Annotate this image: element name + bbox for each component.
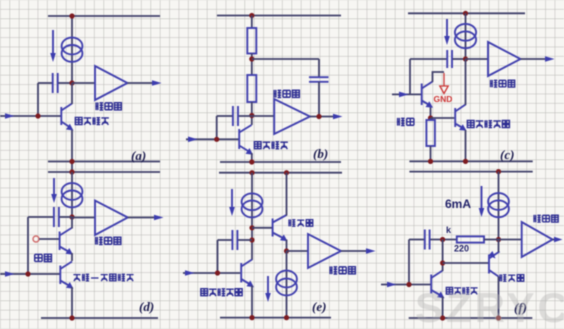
wire: top supply rail (f): [409, 171, 532, 173]
node: base-feed junction dot: [440, 260, 445, 265]
wire: top supply rail (a): [48, 15, 160, 17]
wire: corner to Miller cap: [218, 239, 232, 241]
node: input junction dot: [214, 137, 219, 142]
CIRCUIT A: [0, 13, 162, 172]
wire: Q2 emitter up to output node: [498, 240, 500, 253]
wire: collector node to amp input: [252, 115, 274, 117]
transistor Q2 base bar: [59, 266, 61, 285]
CIRCUIT C: [392, 11, 555, 164]
wire: input line: [381, 284, 431, 286]
arrow: output: [545, 56, 555, 62]
wire: Q1 emitter down to bottom rail: [251, 286, 253, 318]
wire: node down through current source I2 to bottom rail: [286, 251, 288, 318]
wire: down to feedback capacitor: [318, 59, 320, 77]
node: cap/current-source junction dot: [463, 56, 468, 61]
wire: input line: [0, 273, 60, 275]
capacitor C1 (Miller): [53, 207, 55, 227]
label: 电压放大器 (voltage amplifier): [201, 288, 242, 296]
label: 输出级 (output stage): [490, 80, 515, 87]
wire: capacitor to node: [453, 58, 466, 60]
CIRCUIT D: [0, 169, 164, 320]
transistor Q1 emitter with arrow: [239, 146, 249, 152]
transistor Q2 base bar (buffer): [272, 219, 274, 237]
resistor R1 (horizontal): [457, 236, 484, 242]
svg-text:SZRYC: SZRYC: [415, 284, 564, 329]
wire: R2 down to collector node: [251, 102, 253, 125]
svg-text:220: 220: [454, 244, 469, 254]
node: junction on top rail left: [249, 170, 254, 175]
CIRCUIT F: [381, 169, 563, 321]
node: junction bottom rail left: [249, 315, 254, 320]
transistor Q1 base bar (voltage amp): [430, 275, 432, 294]
wire: rail through current source to node: [71, 172, 73, 217]
node: input junction dot: [35, 113, 40, 118]
wire: Q1 emitter down to bottom rail: [442, 297, 444, 319]
wire: left vertical cap to input: [37, 83, 39, 116]
arrow: output: [152, 80, 162, 86]
CIRCUIT B: [186, 13, 343, 165]
arrow: input: [5, 113, 15, 119]
resistor R1: [247, 28, 256, 54]
wire: junction to Q2 base: [443, 262, 489, 264]
wire: feedback tap to the right: [252, 58, 319, 60]
label: 共射--共基放大 (common emitter - common base amp): [73, 274, 133, 281]
wire: amp output: [128, 82, 156, 84]
wire: bottom rail of (d): [41, 317, 158, 319]
node: amp input junction dot: [284, 248, 289, 253]
node A junction dot: [69, 80, 74, 85]
wire: node to amp input: [287, 250, 309, 252]
wire: node A horizontal to capacitor: [38, 82, 52, 84]
wire: rail through current source I1 down to collector join: [251, 173, 253, 260]
wire: vertical from rail through current source to node A: [71, 16, 73, 83]
node: Q2 emitter bottom junction dot: [463, 159, 468, 164]
wire: amp output: [128, 217, 156, 219]
transistor Q1 emitter with arrow: [60, 247, 69, 252]
label: 输出级 (output stage): [533, 215, 558, 222]
wire: node down to resistor: [430, 118, 432, 120]
svg-text:6mA: 6mA: [445, 197, 471, 211]
node: junction on top rail right: [284, 170, 289, 175]
label: 缓冲器 (buffer): [499, 274, 523, 281]
arrow: input: [387, 282, 397, 288]
transistor Q1 base bar (voltage amp): [240, 263, 242, 283]
label: 电压放大器 (voltage amplifier): [467, 120, 509, 128]
node: input junction dot: [406, 282, 411, 287]
node: cap junction dot: [249, 237, 254, 242]
wire: capacitor to node A: [59, 82, 73, 84]
wire: corner to capacitor: [409, 239, 424, 241]
wire: collector step to GND flag: [433, 72, 445, 82]
wire: bottom rail of (e): [220, 317, 331, 319]
transistor Q1 collector: [61, 104, 72, 111]
transistor Q1 collector: [422, 82, 433, 89]
wire: Q2 emitter down to bottom rail: [465, 130, 467, 161]
svg-text:(d): (d): [139, 299, 154, 314]
node: resistor bottom junction dot: [428, 159, 433, 164]
capacitor C1 (Miller): [232, 106, 234, 126]
wire: left vertical from cap line to input line: [409, 59, 411, 94]
op-amp U1 output stage triangle: [522, 222, 553, 257]
node: R1/R2 junction dot: [249, 56, 254, 61]
capacitor C1 (Miller): [231, 230, 233, 250]
wire: capacitor to output node: [318, 82, 320, 117]
node: output junction dot: [316, 114, 321, 119]
wire: left vertical cap line to input: [408, 240, 410, 285]
wire: bottom rail of (f): [409, 317, 533, 319]
current source I1 (two overlapping circles): [242, 193, 263, 210]
wire: cap line left corner to capacitor: [410, 58, 446, 60]
resistor R1: [426, 120, 435, 146]
wire: amp output: [553, 239, 556, 241]
wire: input line: [392, 93, 421, 95]
op-amp U1 output stage triangle: [274, 99, 310, 134]
transistor Q1 emitter with arrow: [422, 101, 429, 105]
wire: junction to buffer base: [252, 227, 272, 229]
transistor Q1 base bar: [60, 107, 62, 125]
wire: node to amp input: [72, 217, 95, 219]
wire: node A to amplifier input: [72, 82, 95, 84]
node: junction bottom rail left: [440, 315, 445, 320]
svg-text:(a): (a): [131, 148, 146, 163]
wire: top supply rail (b): [217, 15, 341, 17]
wire: collector up to node A: [71, 83, 73, 104]
current source I1 (two overlapping circles): [62, 38, 83, 55]
wire: resistor to output node: [484, 239, 499, 241]
svg-text:(b): (b): [313, 146, 328, 161]
arrow: output: [366, 248, 376, 254]
op-amp U1 output stage triangle: [308, 234, 341, 268]
node: cap node junction dot: [69, 214, 74, 219]
wire: Q2 collector up to top rail: [286, 173, 288, 216]
wire: left corner to Miller cap: [217, 115, 232, 117]
wire: amp output: [341, 250, 368, 252]
arrow: input: [5, 271, 15, 277]
transistor Q1 collector: [239, 125, 251, 133]
transistor Q1 emitter with arrow: [431, 290, 440, 295]
transistor Q2 base bar (buffer, PNP): [488, 255, 490, 274]
wire: bottom rail 1 of (a): [48, 161, 160, 163]
wire: R1 to R2: [251, 54, 253, 76]
wire: left vertical down to base line: [216, 116, 218, 139]
label: 偏置 (bias): [35, 254, 52, 261]
transistor Q2 collector: [273, 215, 287, 223]
node: junction bottom rail 1: [69, 159, 74, 164]
node: output node junction dot: [496, 237, 501, 242]
wire: Q2 emitter down to amp node: [286, 240, 288, 252]
wire: Q1 collector up to node: [71, 217, 73, 229]
wire: top supply rail (e): [219, 172, 342, 174]
node: collector node dot: [249, 113, 254, 118]
transistor Q2 collector: [489, 270, 499, 277]
wire: node to amp input: [466, 58, 489, 60]
op-amp U1 output stage triangle: [95, 201, 128, 236]
transistor Q1 collector: [431, 271, 442, 279]
capacitor C1 (Miller): [446, 50, 448, 68]
wire: bottom rail of (b): [220, 161, 341, 163]
transistor Q1 emitter with arrow: [241, 279, 249, 284]
op-amp U1 output stage triangle: [95, 66, 128, 100]
capacitor C1: [424, 230, 426, 250]
transistor Q1 collector: [60, 228, 72, 236]
current source I1 (two overlapping circles): [455, 24, 476, 41]
node: emitter junction dot: [428, 115, 433, 120]
wire: rail to resistor R1: [251, 16, 253, 29]
label: 电压放大 (voltage amplifier): [446, 287, 477, 294]
transistor Q2 collector: [60, 262, 72, 270]
wire: Q2 collector down to bottom rail: [498, 277, 500, 319]
arrow: current direction beside I1: [53, 178, 55, 196]
arrow: output: [333, 114, 343, 120]
transistor Q2 emitter with arrow: [273, 233, 283, 239]
wire: Q1 emitter down to Q2 collector: [71, 253, 73, 261]
transistor Q1 base bar: [59, 232, 61, 251]
node: input junction dot: [215, 270, 220, 275]
wire: input line: [186, 138, 239, 140]
svg-text:(c): (c): [500, 147, 514, 162]
node: input junction dot: [25, 271, 30, 276]
wire: rail through current source down to node: [498, 172, 500, 240]
wire: cap to resistor node: [430, 239, 457, 241]
wire: top rail of (d) / second rail: [48, 171, 160, 173]
transistor Q1 emitter with arrow: [61, 122, 69, 128]
wire: cap to collector node: [239, 115, 252, 117]
label: 电压放大 (voltage amplifier): [75, 117, 109, 125]
arrow: output: [554, 237, 563, 243]
node: junction bottom rail right: [284, 315, 289, 320]
transistor Q1 base bar (emitter follower): [421, 84, 423, 106]
node: junction on top rail: [496, 169, 501, 174]
transistor Q1 collector: [241, 260, 252, 267]
wire: Q2 emitter down to bottom rail: [71, 287, 73, 318]
svg-text:GND: GND: [434, 94, 453, 104]
node: junction bottom rail: [249, 159, 254, 164]
wire: emitter down to bottom rail: [71, 130, 73, 172]
ground flag (red open arrow): [443, 73, 445, 86]
wire: emitter down to bottom rail: [251, 153, 253, 162]
wire: emitter down to Q2 base node: [430, 108, 432, 119]
arrow: current direction beside I1: [446, 19, 448, 38]
label: 电压放大 (voltage amplifier): [254, 141, 288, 149]
current source I1 (two overlapping circles): [62, 183, 83, 200]
arrow: current direction beside I1: [231, 189, 233, 209]
label: 输出级 (output stage): [329, 266, 355, 274]
node: junction on top rail: [463, 11, 468, 16]
node: cap/collector junction dot: [440, 237, 445, 242]
wire: amp output: [521, 58, 548, 60]
capacitor C2 feedback: [309, 76, 329, 78]
node: buffer base junction dot: [249, 225, 254, 230]
transistor Q2 collector: [455, 105, 465, 112]
capacitor C1 (Miller): [52, 73, 54, 93]
resistor R2: [247, 75, 256, 102]
label: 缓冲器 (buffer): [288, 219, 312, 226]
wire: capacitor to node: [60, 216, 72, 218]
node: junction bottom rail right: [496, 315, 501, 320]
wire: Q2 collector up to node: [465, 59, 467, 105]
svg-text:(e): (e): [312, 299, 326, 314]
wire: output node to amp input: [499, 239, 522, 241]
wire: cap to junction: [238, 239, 252, 241]
label: 输出级 (output stage): [95, 102, 121, 110]
transistor Q2 emitter with arrow: [455, 124, 462, 128]
wire: Q1 collector up to cap node: [442, 240, 444, 272]
label: 输出级 (output stage): [273, 90, 299, 98]
wire: bias circle to Q1 base: [39, 238, 59, 240]
wire: amp output: [310, 116, 335, 118]
bias terminal (red open circle): [33, 236, 39, 242]
node: junction on top rail: [249, 13, 254, 18]
current source I1 (two overlapping circles): [488, 193, 509, 210]
wire: left vertical down to input line: [217, 240, 219, 273]
wire: node horizontal to capacitor: [28, 216, 53, 218]
transistor Q1 base bar: [238, 129, 240, 149]
arrow: current direction beside I1: [481, 186, 483, 210]
wire: rail through current source to node: [465, 13, 467, 59]
wire: input line: [0, 115, 61, 117]
node: junction on top rail: [69, 13, 74, 18]
transistor Q2 emitter with arrow: [60, 281, 69, 286]
node: junction bottom rail: [69, 315, 74, 320]
wire: resistor to bottom rail: [430, 146, 432, 161]
wire: left vertical cap to input: [27, 217, 29, 274]
arrow: current direction beside I1: [52, 30, 54, 55]
arrow: input: [185, 270, 195, 276]
current source I2 (two overlapping circles): [276, 271, 297, 288]
arrow: current direction beside I2: [267, 276, 269, 295]
arrow: output: [154, 215, 164, 221]
CIRCUIT E: [183, 170, 376, 320]
label: 输出级 (output stage): [95, 237, 121, 245]
arrow: input: [399, 92, 409, 98]
transistor Q2 emitter with arrow pointing into bar: [489, 252, 500, 259]
transistor Q2 base bar (voltage amplifier): [454, 108, 456, 127]
op-amp U1 output stage triangle: [488, 42, 521, 76]
wire: input line: [183, 272, 240, 274]
label: 射随 (emitter follower): [397, 118, 414, 126]
node: junction on rail: [69, 169, 74, 174]
wire: top supply rail (c): [408, 12, 525, 14]
arrow: input: [188, 137, 198, 143]
wire: bottom rail of (c): [409, 160, 532, 162]
wire: to Q2 base: [431, 117, 455, 119]
